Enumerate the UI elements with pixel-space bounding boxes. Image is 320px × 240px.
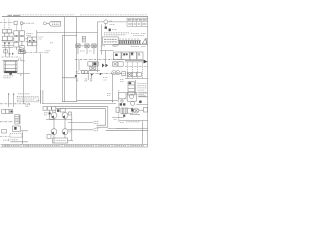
vertical wire with arrow	[112, 74, 114, 101]
valve bank 2	[130, 52, 143, 60]
wire dash-dot upper left	[0, 22, 14, 24]
junction box	[4, 50, 8, 53]
bottom table text	[2, 145, 144, 147]
text left of row	[37, 101, 49, 115]
wire	[46, 118, 72, 128]
motor fan right	[131, 107, 147, 113]
title text dark segment	[8, 14, 21, 16]
long vertical through boxes	[64, 17, 66, 102]
valve cluster V2 with solenoids	[1, 36, 13, 45]
valve pair right-center	[112, 62, 123, 75]
bottom table	[1, 144, 148, 147]
valve row center	[75, 44, 98, 54]
wire dash-dot	[0, 136, 10, 138]
filter hatched box	[20, 46, 25, 52]
small text labels	[75, 72, 108, 83]
text	[114, 120, 141, 129]
sub box B	[62, 78, 76, 102]
small box right	[20, 50, 25, 53]
wire top	[100, 25, 102, 55]
valve block lower-left	[13, 126, 28, 131]
wire dash-dot center	[75, 59, 125, 61]
node circle B	[43, 22, 46, 25]
valve cluster upper-left V1	[2, 19, 22, 37]
banner label	[46, 22, 49, 24]
long vertical wire	[76, 17, 78, 102]
motor M4	[62, 129, 72, 135]
wire vertical tank right	[71, 115, 73, 140]
pump unit tank	[2, 60, 18, 75]
title block text	[128, 19, 147, 21]
wire	[125, 78, 148, 80]
label box with two text rows	[103, 37, 119, 44]
flow arrow	[144, 60, 148, 64]
dashed vertical wire	[118, 90, 120, 122]
wire dash-dot center low	[78, 73, 126, 75]
main box top edge	[62, 34, 76, 36]
dashed label box bottom-left	[10, 134, 22, 138]
small box bottom-left	[2, 130, 7, 133]
top border	[2, 16, 148, 18]
title text row	[20, 14, 147, 16]
bottom small text and line	[11, 141, 29, 143]
left box edge verticals	[41, 90, 43, 104]
center cluster V3	[26, 30, 37, 52]
wire	[23, 22, 34, 24]
wire from pump	[17, 59, 30, 74]
wire under bank	[113, 44, 148, 46]
pipe bend right	[106, 107, 108, 128]
valve cluster center C	[80, 62, 100, 80]
wire dash-dot	[25, 52, 45, 54]
reservoir tank	[53, 138, 68, 143]
tall component right	[128, 80, 136, 95]
small valve row right	[127, 72, 141, 76]
text under dashed box	[26, 105, 31, 107]
vertical wires with arrows	[9, 94, 14, 107]
wire stub	[78, 60, 80, 71]
wire pilot lines	[2, 45, 16, 57]
wire right of tank	[68, 139, 73, 141]
pressure arrow	[90, 74, 93, 77]
wire vertical	[22, 131, 24, 144]
relief triangle symbol	[142, 38, 147, 44]
solenoid valve row lower-left	[2, 110, 13, 114]
note text column	[138, 84, 148, 95]
text	[107, 94, 111, 96]
wire vertical center	[40, 54, 42, 104]
dashed signal lines center bottom	[68, 121, 99, 130]
text under bank	[114, 46, 147, 48]
text label	[27, 34, 44, 40]
cluster right-mid (pumps)	[113, 92, 148, 105]
solenoid valve SV1	[100, 51, 130, 63]
small box left of tank	[47, 135, 51, 139]
dashed label box	[17, 94, 38, 102]
title block table top right	[127, 18, 148, 26]
dashes	[120, 80, 124, 82]
wires bottom right	[112, 118, 148, 121]
junction dot	[100, 73, 102, 75]
relief box	[18, 50, 24, 54]
double pipe	[125, 60, 145, 62]
gauge side text	[110, 21, 118, 30]
check valves	[9, 53, 14, 55]
wire dash-dot	[125, 66, 148, 68]
long wire bottom pair	[106, 128, 148, 130]
main box left edge	[61, 35, 63, 101]
motor M1	[51, 111, 57, 119]
dark mark under gauge	[109, 29, 111, 32]
wire dash-dot mid-left	[0, 103, 30, 105]
text under label box	[101, 45, 120, 47]
accumulator	[15, 115, 20, 124]
sensor component	[82, 36, 85, 42]
pump label text	[4, 76, 14, 78]
dashed drains	[128, 62, 143, 78]
gauge G1	[98, 20, 127, 29]
text rows right of gauge	[104, 33, 129, 35]
vertical wire bottom right	[142, 121, 144, 145]
bottom right cluster	[116, 107, 133, 116]
check valves center	[102, 63, 108, 67]
wire dash-dot	[2, 56, 21, 58]
wires to tank	[54, 135, 65, 139]
component row under pipes	[43, 107, 65, 120]
motor M2	[62, 112, 72, 118]
motor M3	[51, 129, 57, 135]
table footnote text	[131, 34, 146, 36]
valve stack right of V1	[13, 31, 24, 47]
node circle	[20, 22, 23, 25]
top right valve bank teeth	[119, 38, 142, 44]
small box	[122, 72, 126, 76]
wire horizontal top	[37, 32, 98, 34]
node box upper left	[14, 21, 17, 24]
long pipes	[77, 100, 113, 102]
long vertical wire 2	[97, 22, 99, 72]
wire dash-dot	[0, 121, 13, 123]
right border	[147, 17, 149, 147]
vertical wires right of pump	[21, 51, 23, 104]
